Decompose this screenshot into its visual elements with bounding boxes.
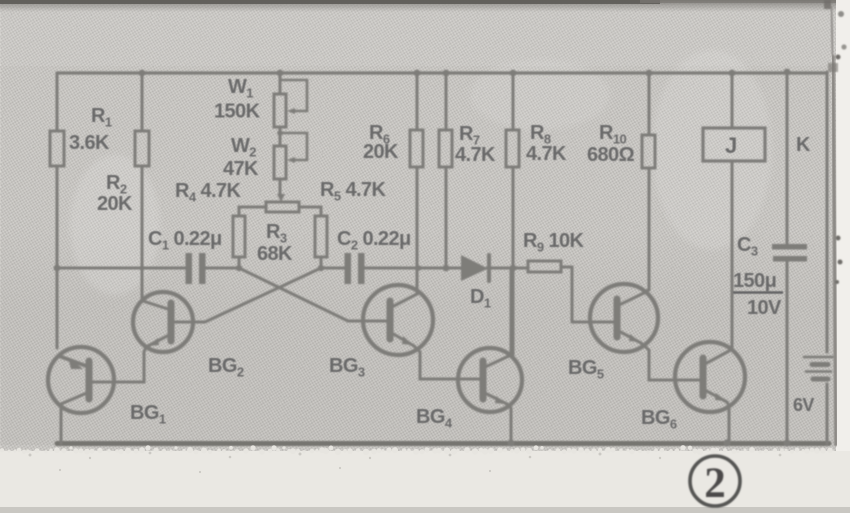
wire R3 left to R4	[239, 207, 266, 216]
top dark band	[0, 0, 838, 12]
light patches	[652, 50, 772, 250]
svg-text:J: J	[725, 133, 737, 158]
dark border streak right	[833, 55, 836, 446]
svg-text:47K: 47K	[223, 158, 259, 180]
wire bottom rail	[57, 441, 829, 446]
diode D1	[461, 255, 488, 281]
svg-text:20K: 20K	[97, 193, 133, 215]
wire R9 to BG5 base	[561, 267, 572, 322]
svg-text:R9 10K: R9 10K	[523, 230, 584, 255]
transistor BG3	[363, 285, 433, 355]
svg-text:20K: 20K	[363, 141, 399, 163]
resistor R5	[315, 216, 327, 257]
svg-text:680Ω: 680Ω	[587, 144, 635, 166]
wire middle left	[57, 267, 186, 270]
cross-coupling wire node R5 to BG2 base	[175, 268, 321, 322]
wire K column	[786, 72, 789, 244]
resistor R7	[445, 73, 448, 130]
junction dots bottom rail	[507, 439, 514, 446]
wire right column	[826, 72, 829, 444]
svg-text:4.7K: 4.7K	[455, 144, 496, 166]
potentiometer W1	[279, 73, 282, 94]
wire top rail	[57, 71, 827, 74]
resistor R3	[266, 202, 299, 212]
resistor R2	[135, 131, 149, 166]
resistor R4	[233, 216, 245, 257]
junction dots middle wire	[54, 265, 61, 272]
svg-text:2: 2	[704, 460, 726, 507]
wire R2 bottom to BG2 collector	[141, 166, 144, 301]
wire D1 to R9	[487, 267, 528, 270]
wire R1 bottom	[56, 166, 59, 348]
cross-coupling wire node R4 to BG3 base	[239, 268, 390, 321]
wire R3 right to R5	[299, 207, 321, 216]
transistor BG5	[590, 284, 658, 352]
junction dots top rail	[54, 69, 791, 447]
svg-text:150K: 150K	[214, 101, 261, 123]
wire R2 top	[141, 73, 144, 131]
wire R5 bottom	[320, 257, 323, 268]
resistor R6	[416, 73, 419, 130]
bottom page strip	[0, 445, 850, 513]
resistor R9	[528, 261, 561, 272]
svg-text:3.6K: 3.6K	[69, 132, 110, 154]
svg-text:C1 0.22μ: C1 0.22μ	[148, 228, 222, 253]
wire R4 bottom	[238, 257, 241, 268]
resistor R10	[648, 73, 651, 135]
top-right marks	[824, 0, 847, 284]
svg-text:K: K	[796, 134, 811, 156]
svg-text:10V: 10V	[747, 297, 782, 319]
resistor R1	[50, 131, 64, 166]
wire C2 to D1	[364, 267, 463, 270]
wire W2 to R3 wiper arrow	[279, 179, 282, 196]
transistor BG2	[133, 292, 193, 352]
svg-text:150μ: 150μ	[733, 270, 776, 292]
wire left rail	[56, 73, 59, 131]
wire C1 to node	[206, 267, 240, 270]
svg-text:4.7K: 4.7K	[526, 143, 567, 165]
svg-text:R4 4.7K: R4 4.7K	[175, 180, 241, 205]
battery B 6V	[804, 356, 833, 359]
right white margin	[836, 0, 850, 513]
figure number 2	[690, 456, 740, 507]
relay J	[731, 73, 734, 128]
potentiometer W2	[279, 127, 282, 146]
transistor BG4	[458, 348, 522, 412]
wire node R5 to C2	[321, 267, 345, 270]
transistor BG6	[675, 342, 745, 412]
capacitor C3	[772, 244, 807, 250]
capacitor C1	[186, 253, 193, 284]
resistor R8	[512, 73, 515, 130]
capacitor C2	[345, 253, 352, 284]
transistor BG1	[48, 347, 114, 413]
svg-text:68K: 68K	[257, 243, 293, 265]
svg-text:R5 4.7K: R5 4.7K	[320, 179, 386, 204]
blotch at rail end	[828, 63, 838, 72]
svg-text:C2 0.22μ: C2 0.22μ	[337, 228, 411, 253]
svg-text:6V: 6V	[793, 395, 814, 415]
